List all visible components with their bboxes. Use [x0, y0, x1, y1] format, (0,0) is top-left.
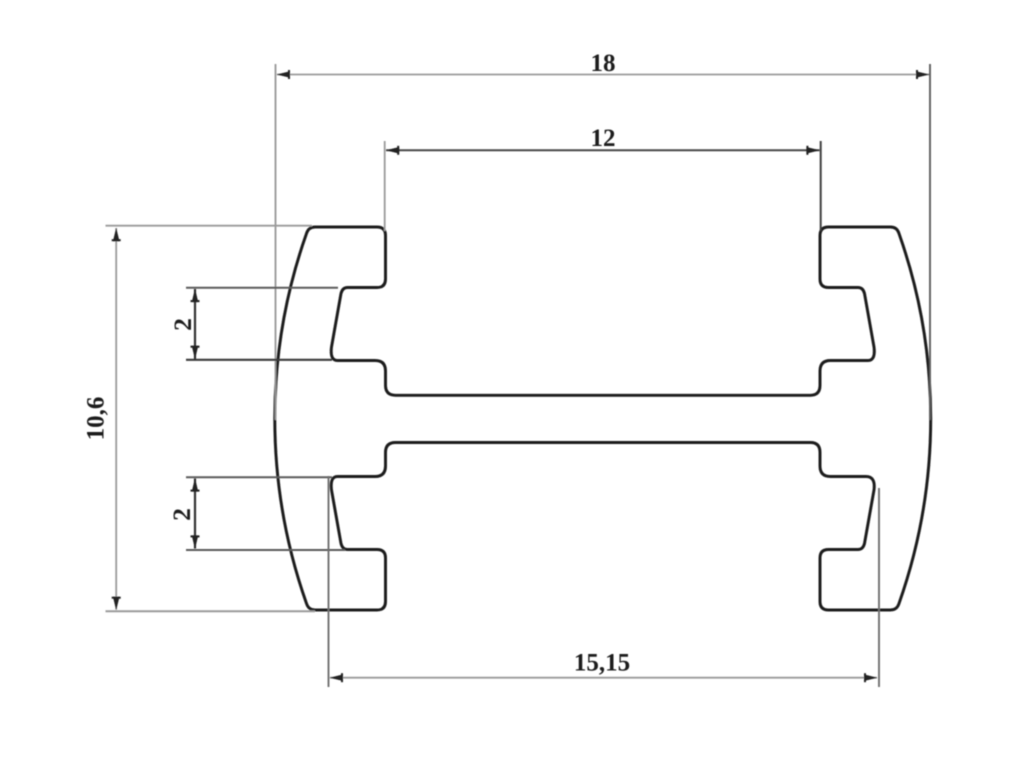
- dim 2 upper: extension line bottom: [186, 359, 332, 361]
- dim 15,15: extension line right: [878, 488, 880, 687]
- svg-text:2: 2: [167, 508, 196, 521]
- profile outline: H-section extrusion with convex side walls: [275, 227, 931, 610]
- dim 2 lower: extension line top: [186, 476, 332, 478]
- svg-text:2: 2: [168, 318, 197, 331]
- dim 10,6: dimension line: [115, 228, 117, 610]
- dim 10,6: arrow bottom: [113, 597, 120, 611]
- svg-text:10,6: 10,6: [83, 397, 110, 441]
- dim 12: extension line right: [820, 141, 822, 231]
- svg-text:15,15: 15,15: [574, 650, 630, 677]
- dim 2 lower: dimension line: [194, 479, 196, 549]
- dim 18: arrow right: [916, 71, 930, 78]
- dim 10,6: extension line top: [106, 225, 313, 227]
- dim 2 upper: dimension line: [194, 289, 196, 359]
- dim 12: arrow right: [806, 147, 820, 154]
- svg-text:12: 12: [591, 125, 616, 152]
- dim 2 upper: arrow bottom: [192, 346, 199, 360]
- dim 15,15: arrow left: [330, 674, 344, 681]
- dim 2 lower: arrow bottom: [192, 535, 199, 549]
- dim 12: dimension line: [386, 149, 820, 151]
- dim 18: dimension line: [277, 74, 929, 76]
- dim 2 upper: extension line top: [186, 287, 338, 289]
- dim 2 lower: arrow top: [192, 478, 199, 492]
- dim 2 lower: extension line bottom: [186, 549, 345, 551]
- dim 10,6: extension line bottom: [106, 610, 316, 612]
- dim 12: extension line left: [384, 141, 386, 231]
- dim 15,15: arrow right: [864, 674, 878, 681]
- dim 10,6: arrow top: [113, 228, 120, 242]
- svg-text:18: 18: [591, 50, 616, 77]
- dim 12: arrow left: [386, 147, 400, 154]
- dim 15,15: dimension line: [330, 677, 877, 679]
- dim 18: extension line left: [275, 64, 277, 420]
- dim 18: extension line right: [929, 64, 931, 420]
- dim 2 upper: arrow top: [192, 289, 199, 303]
- dim 18: arrow left: [277, 71, 291, 78]
- dim 15,15: extension line left: [328, 476, 330, 687]
